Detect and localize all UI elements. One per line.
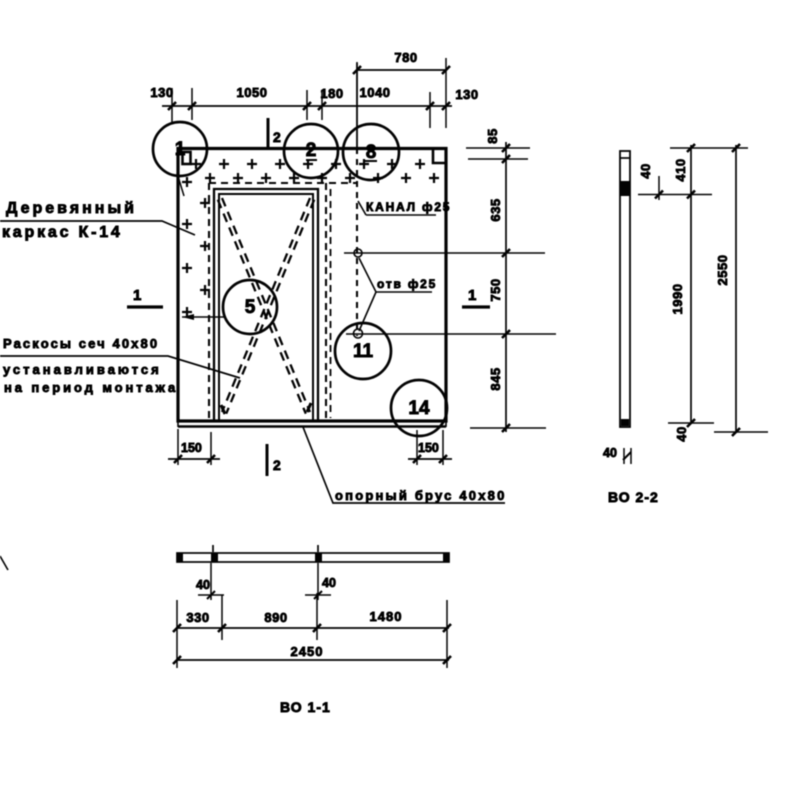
svg-text:на период монтажа: на период монтажа — [4, 380, 178, 395]
svg-text:1990: 1990 — [670, 284, 685, 315]
svg-text:410: 410 — [673, 158, 688, 181]
svg-text:каркас К-14: каркас К-14 — [2, 224, 123, 241]
svg-text:2: 2 — [273, 129, 281, 145]
svg-text:ВО 1-1: ВО 1-1 — [280, 699, 331, 715]
svg-text:КАНАЛ ф25: КАНАЛ ф25 — [366, 200, 451, 214]
svg-text:40: 40 — [322, 576, 336, 590]
svg-text:ВО 2-2: ВО 2-2 — [608, 489, 659, 505]
svg-text:750: 750 — [488, 278, 503, 301]
svg-text:Деревянный: Деревянный — [6, 200, 137, 217]
svg-text:2: 2 — [273, 457, 281, 473]
svg-text:1: 1 — [175, 139, 186, 160]
svg-text:2450: 2450 — [291, 644, 324, 659]
svg-text:85: 85 — [485, 128, 500, 143]
svg-text:2: 2 — [306, 140, 317, 161]
svg-text:5: 5 — [245, 297, 256, 318]
svg-text:40: 40 — [603, 446, 617, 460]
svg-text:635: 635 — [488, 198, 503, 221]
svg-text:11: 11 — [353, 341, 374, 362]
svg-text:780: 780 — [394, 50, 417, 65]
svg-text:8: 8 — [366, 142, 377, 163]
svg-text:150: 150 — [181, 441, 202, 455]
svg-text:14: 14 — [408, 398, 430, 419]
svg-text:1: 1 — [468, 287, 476, 304]
svg-text:1040: 1040 — [360, 85, 391, 100]
svg-text:отв ф25: отв ф25 — [377, 277, 437, 291]
svg-text:40: 40 — [674, 426, 689, 441]
svg-text:150: 150 — [418, 441, 439, 455]
svg-text:устанавливаются: устанавливаются — [3, 362, 162, 377]
svg-text:180: 180 — [320, 86, 343, 101]
svg-text:1050: 1050 — [237, 85, 268, 100]
svg-text:40: 40 — [638, 163, 653, 178]
svg-text:опорный брус 40х80: опорный брус 40х80 — [335, 488, 507, 503]
svg-text:330: 330 — [186, 610, 209, 625]
svg-text:130: 130 — [455, 87, 478, 102]
svg-text:890: 890 — [264, 610, 287, 625]
svg-text:845: 845 — [488, 367, 503, 390]
svg-text:130: 130 — [150, 85, 173, 100]
svg-text:Раскосы сеч 40х80: Раскосы сеч 40х80 — [3, 336, 159, 351]
svg-text:1480: 1480 — [370, 609, 403, 624]
svg-text:2550: 2550 — [715, 255, 730, 286]
svg-text:40: 40 — [196, 578, 210, 592]
svg-text:1: 1 — [133, 287, 141, 304]
